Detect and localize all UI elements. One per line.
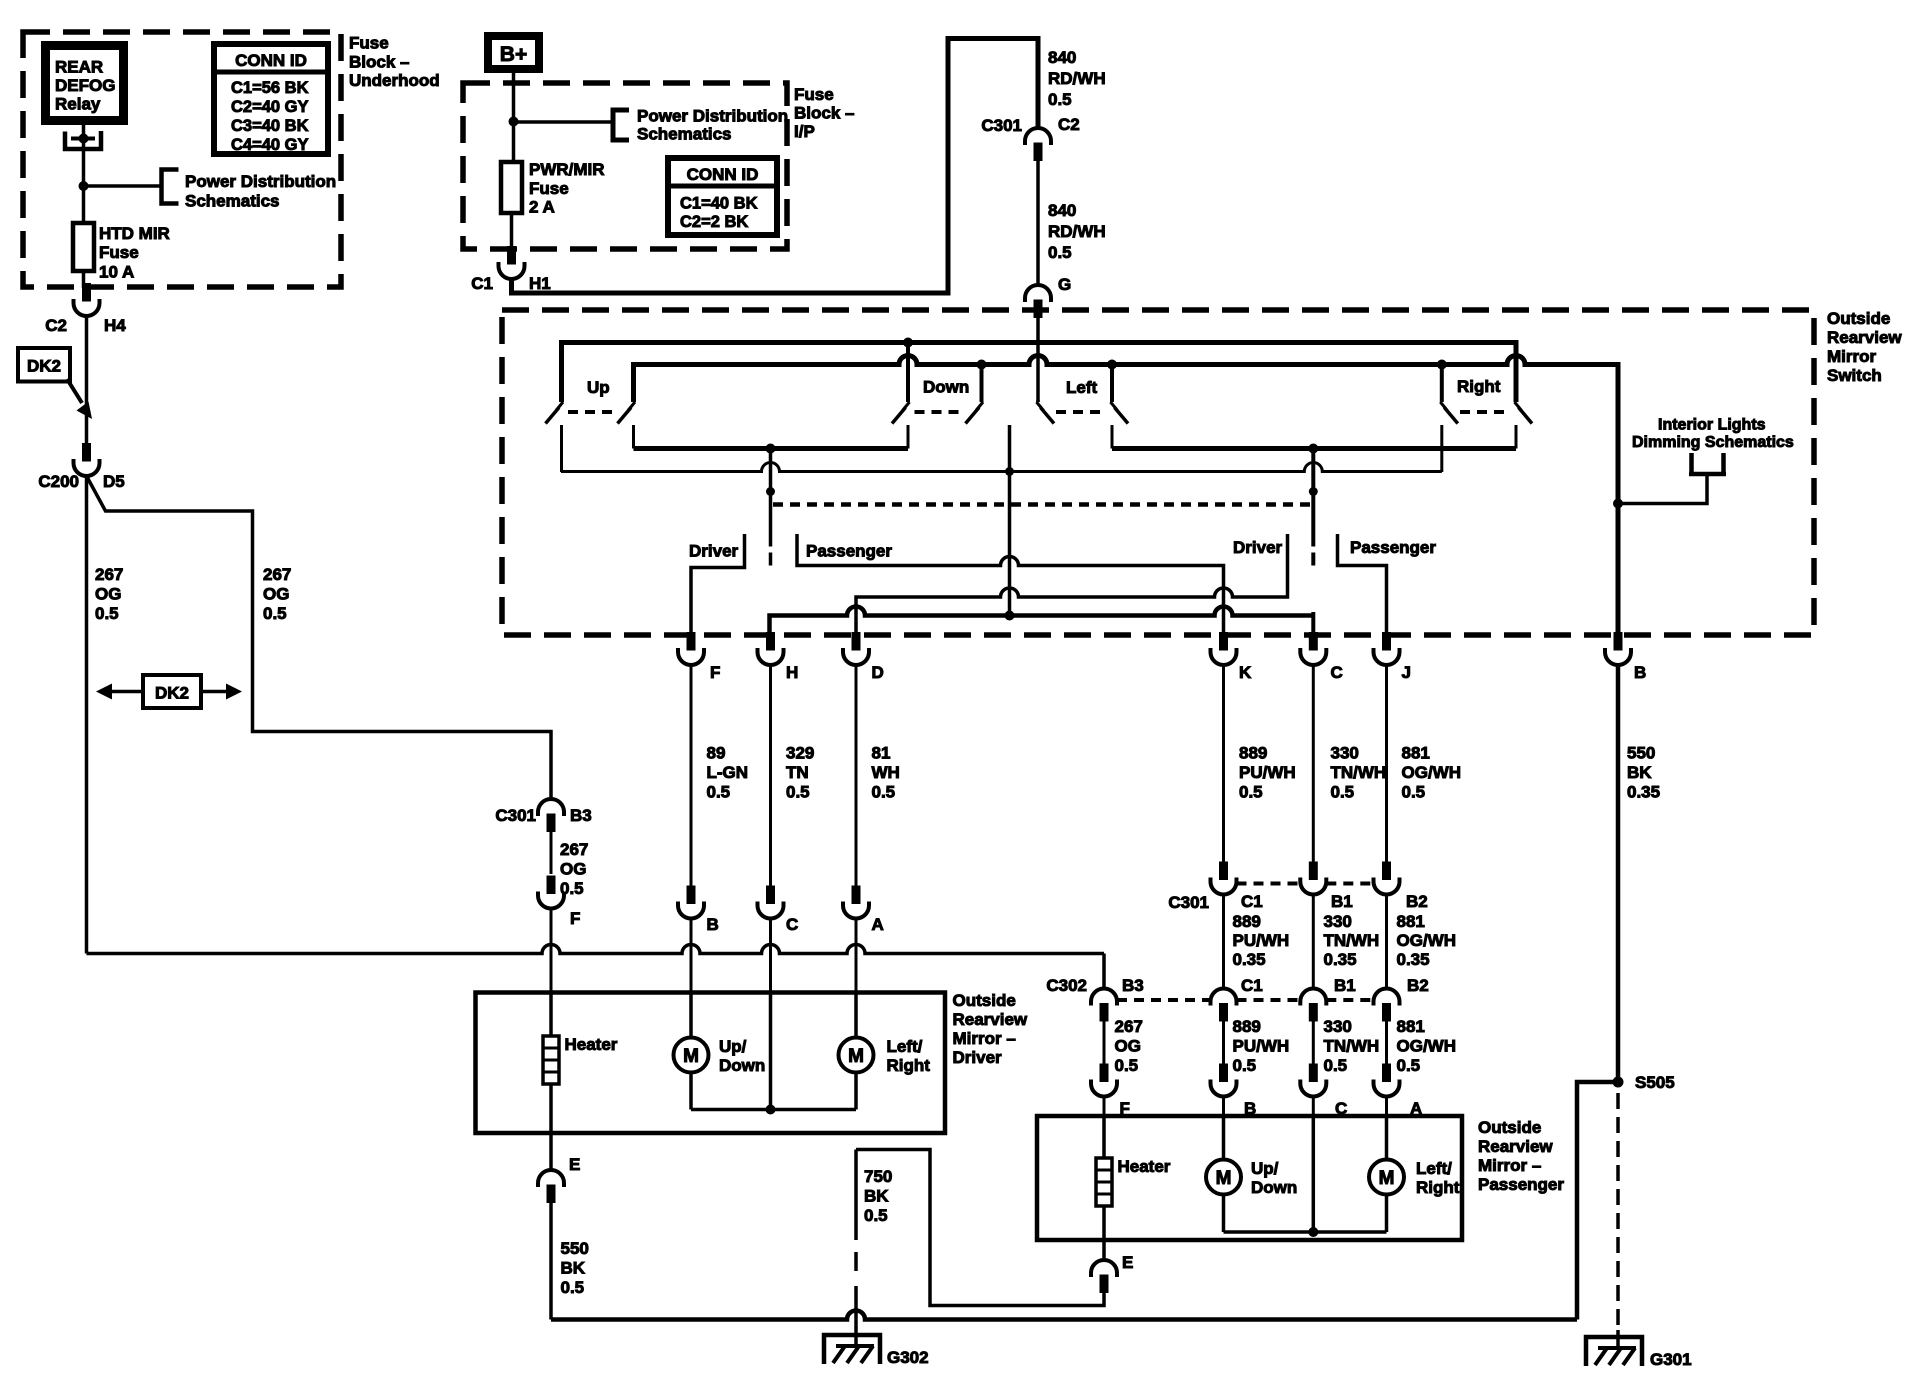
svg-text:Dimming Schematics: Dimming Schematics [1632,434,1794,451]
svg-text:Driver: Driver [1233,538,1283,557]
svg-text:G301: G301 [1650,1350,1692,1369]
switch SW4 Right gang dashes [1460,410,1508,414]
svg-text:0.5: 0.5 [1048,243,1072,262]
wire C inside box [1312,1116,1316,1232]
wire junction to fuse [82,186,86,223]
switch SW2 Down right pole [980,366,984,402]
wire heater down [1102,1206,1106,1260]
wire center (down/left common) [1008,425,1012,616]
svg-text:Rearview: Rearview [1478,1137,1553,1156]
wire heater down through box [549,1084,553,1170]
connector driver mirror pin B [687,886,695,904]
wire C301 B3 down [550,829,553,874]
relay connector bracket [65,131,101,149]
fuse F HTD MIR 10A [73,223,94,271]
conn id table I/P [668,158,777,235]
svg-text:0.5: 0.5 [786,783,810,802]
svg-text:E: E [1122,1253,1133,1272]
svg-text:Mirror –: Mirror – [1478,1156,1541,1175]
svg-text:0.5: 0.5 [1115,1056,1139,1075]
svg-text:0.5: 0.5 [561,1278,585,1297]
svg-text:OG: OG [95,585,121,604]
switch SW4 Right right pole [1514,344,1518,402]
svg-text:2 A: 2 A [529,198,555,217]
svg-text:WH: WH [872,763,900,782]
node C wire / dashed gang [1309,487,1318,496]
wire fuse to box edge [510,213,514,250]
svg-text:Up: Up [587,378,610,397]
svg-text:Heater: Heater [1118,1157,1171,1176]
connector C302 pin B3 [1091,989,1117,1006]
svg-text:550: 550 [1627,744,1655,763]
battery terminal B+ [488,36,539,69]
connector mirror switch pin D [852,633,860,651]
svg-text:550: 550 [561,1239,589,1258]
svg-text:C1=56 BK: C1=56 BK [231,79,309,97]
svg-text:0.5: 0.5 [1233,1056,1257,1075]
label Passenger (right platform, wire to J) [1338,534,1387,634]
svg-text:M: M [683,1046,699,1067]
motor M left/right passenger [1385,1116,1389,1160]
svg-text:BK: BK [864,1187,889,1206]
wire 750 BK dashes [854,1252,858,1271]
motor M up/down passenger [1222,1116,1226,1160]
node center wire / common line [1005,611,1015,621]
node H wire / dashed gang [766,487,775,496]
interior lights dimming callout [1613,499,1623,509]
connector mirror switch pin K [1220,633,1228,651]
connector C302 pin B1 [1300,989,1326,1006]
svg-text:Fuse: Fuse [99,243,139,262]
svg-text:C301: C301 [495,806,536,825]
svg-text:0.5: 0.5 [1402,783,1426,802]
switch SW2 Down gang dashes [915,410,964,414]
svg-text:K: K [1239,663,1252,682]
wire junction to fuse PWR/MIR [512,122,516,163]
wire dashed C302 connector body [1117,998,1211,1002]
svg-text:Up/: Up/ [719,1037,747,1056]
connector mirror switch pin J [1383,633,1391,651]
svg-text:Left/: Left/ [1416,1159,1452,1178]
fuse F PWR/MIR 2A [501,162,522,213]
svg-text:PWR/MIR: PWR/MIR [529,160,605,179]
svg-text:TN/WH: TN/WH [1331,763,1387,782]
node motor common [766,1105,776,1115]
svg-text:OG: OG [560,860,586,879]
wire to power distribution bracket I/P [514,120,612,124]
svg-text:C2: C2 [1058,115,1080,134]
relay K REAR DEFOG [46,46,124,121]
svg-text:Right: Right [1457,377,1501,396]
wire 750 BK solid part [854,1150,858,1241]
motor M left/right driver [854,993,858,1038]
svg-text:840: 840 [1048,201,1076,220]
svg-text:Fuse: Fuse [794,85,834,104]
svg-text:B2: B2 [1406,892,1428,911]
svg-text:Passenger: Passenger [1350,538,1436,557]
wire 267 OG horizontal run to passenger (hops F B C A) [87,945,1105,954]
svg-text:Outside: Outside [1478,1118,1541,1137]
wire D to driver conn A [855,665,858,889]
outside rearview mirror passenger box [1037,1116,1462,1240]
wire F inside box [1102,1116,1106,1158]
wire common line (H to C thick, hops at D and K) [770,607,1314,634]
connector mirror switch pin G [1025,285,1051,302]
fuse block underhood dashed box [23,32,341,287]
wire A into passenger mirror [1385,1097,1388,1117]
svg-text:89: 89 [707,744,726,763]
wire 840 RD/WH from C1 H1 to switch loop [512,39,1039,294]
svg-text:329: 329 [786,744,814,763]
svg-text:Driver: Driver [953,1048,1003,1067]
svg-text:L-GN: L-GN [707,763,749,782]
svg-text:C301: C301 [981,116,1022,135]
svg-text:E: E [569,1155,580,1174]
svg-text:G: G [1058,275,1071,294]
svg-text:F: F [570,909,580,928]
wire C301 B1 down [1312,895,1315,989]
svg-text:C200: C200 [38,472,79,491]
svg-text:881: 881 [1397,912,1425,931]
svg-text:BK: BK [1627,763,1652,782]
outside rearview mirror driver box [476,993,946,1134]
svg-text:Fuse: Fuse [349,34,389,53]
svg-text:Power Distribution: Power Distribution [185,172,336,191]
svg-text:C3=40 BK: C3=40 BK [231,117,309,135]
svg-text:Passenger: Passenger [1478,1175,1564,1194]
switch SW2 Down left pole [906,344,910,402]
svg-text:Relay: Relay [55,95,101,114]
svg-text:0.5: 0.5 [1324,1056,1348,1075]
connector driver mirror pin E [538,1170,564,1187]
wire C into driver mirror [769,919,772,993]
connector passenger mirror pin A [1383,1064,1391,1082]
switch SW3 Left left pole [1036,400,1040,402]
svg-text:BK: BK [561,1259,586,1278]
svg-text:S505: S505 [1635,1073,1675,1092]
wire dashed C301 connector body [1237,882,1301,886]
node rail B / left switch [1107,360,1117,370]
svg-text:0.5: 0.5 [1397,1056,1421,1075]
connector C301 pin B3 (driver heater feed) [538,799,564,816]
svg-text:CONN ID: CONN ID [235,51,307,70]
wire C302 pin down [1385,1019,1388,1068]
svg-text:C2: C2 [45,316,67,335]
connector C301 pin B1 [1309,862,1317,880]
svg-text:B1: B1 [1334,976,1356,995]
wire C resume to C connector [1311,612,1315,634]
svg-text:Outside: Outside [1827,309,1890,328]
connector driver mirror pin C [767,886,775,904]
wire motor common link [691,1108,856,1112]
svg-text:B1: B1 [1331,892,1353,911]
power distribution schematics bracket I/P [613,110,629,140]
wire F into passenger mirror [1103,1097,1106,1117]
svg-text:G302: G302 [887,1348,929,1367]
svg-text:0.5: 0.5 [1048,90,1072,109]
svg-text:I/P: I/P [794,122,815,141]
DK2 box with double arrow [106,690,232,694]
fuse block I/P dashed box [463,83,787,249]
wire C2 to C200 [85,316,89,447]
svg-text:B2: B2 [1407,976,1429,995]
svg-text:J: J [1402,663,1411,682]
wire motor common link passenger [1224,1230,1387,1234]
svg-text:Mirror –: Mirror – [953,1029,1016,1048]
svg-text:B: B [707,915,719,934]
svg-text:Block –: Block – [349,53,409,72]
connector mirror switch pin F [687,633,695,651]
svg-text:881: 881 [1397,1017,1425,1036]
label Driver (right platform, wire to D) [856,534,1288,634]
svg-text:OG: OG [263,585,289,604]
wire B into passenger mirror [1222,1097,1225,1117]
switch SW3 Left right pole [1110,366,1114,402]
svg-text:Down: Down [923,378,969,397]
wire B to S505 [1616,665,1621,1082]
svg-text:TN: TN [786,763,809,782]
svg-text:OG: OG [1115,1037,1141,1056]
wire to power distribution bracket [84,184,161,188]
svg-text:Down: Down [1251,1178,1297,1197]
switch SW1 Up right pole [632,367,636,402]
svg-text:889: 889 [1233,1017,1261,1036]
svg-text:0.5: 0.5 [864,1206,888,1225]
svg-text:267: 267 [95,565,123,584]
wire C hidden dash [1311,553,1315,566]
ground G301 [1586,1337,1642,1366]
connector C302 pin B2 [1374,989,1400,1006]
svg-text:H4: H4 [104,316,126,335]
wire C302 pin down [1103,1019,1106,1068]
label Driver (left platform) [691,534,745,634]
svg-text:C: C [1331,663,1343,682]
svg-text:Left: Left [1066,378,1098,397]
connector C1 pin H1 [508,247,516,265]
wire G into switch [1036,315,1040,402]
svg-text:81: 81 [872,744,891,763]
power distribution schematics bracket [162,170,179,204]
svg-text:C2=40 GY: C2=40 GY [231,98,309,116]
connector driver mirror pin F [547,876,555,894]
heater R driver [543,1036,559,1084]
wire 750 BK through hop to ground [854,1310,858,1347]
node B+ junction [509,117,519,127]
svg-text:Right: Right [1416,1178,1460,1197]
svg-text:881: 881 [1402,744,1430,763]
connector C200 pin D5 [83,444,91,462]
svg-text:C1: C1 [1241,892,1263,911]
svg-text:F: F [710,663,720,682]
wire rail B (second rail, hops at 908/1038/1516) [634,356,1619,635]
svg-text:C301: C301 [1168,893,1209,912]
svg-text:Underhood: Underhood [349,71,440,90]
switch SW3 Left gang dashes [1056,410,1104,414]
svg-text:PU/WH: PU/WH [1233,931,1290,950]
wire C200 straight down [85,476,89,954]
wire E to 750 BK ground branch [856,1150,1104,1306]
svg-text:Power Distribution: Power Distribution [637,107,788,126]
svg-text:H1: H1 [529,274,551,293]
svg-text:267: 267 [560,840,588,859]
wire C2 to G [1036,158,1040,285]
conn id table underhood [214,44,328,154]
svg-text:C1: C1 [1241,976,1263,995]
wire F inside box [549,993,553,1037]
svg-text:Interior Lights: Interior Lights [1658,417,1766,434]
svg-text:Mirror: Mirror [1827,347,1877,366]
svg-text:0.35: 0.35 [1324,950,1357,969]
connector C301 pin C1 [1220,862,1228,880]
connector C301 pin B2 [1383,862,1391,880]
svg-text:0.5: 0.5 [1331,783,1355,802]
wire rail C2 (left-right to right-right) [1112,446,1516,451]
node splice S505 [1613,1077,1624,1088]
svg-text:0.5: 0.5 [1239,783,1263,802]
svg-text:A: A [872,915,884,934]
svg-text:0.35: 0.35 [1397,950,1430,969]
node rail B / down switch [977,360,987,370]
svg-text:D: D [872,663,884,682]
svg-text:Passenger: Passenger [806,542,892,561]
svg-text:267: 267 [263,565,291,584]
wire rail A (top power rail) [562,343,1517,403]
svg-text:Rearview: Rearview [953,1010,1028,1029]
svg-text:330: 330 [1324,1017,1352,1036]
wire H to driver conn C [769,665,772,889]
wire corner down to C302 B3 [1102,954,1106,989]
svg-text:OG/WH: OG/WH [1402,763,1462,782]
connector mirror switch pin B [1614,633,1622,651]
connector C301 pin C2 [1025,128,1051,145]
svg-text:330: 330 [1331,744,1359,763]
connector passenger mirror pin C [1309,1064,1317,1082]
ground G302 [824,1335,880,1364]
svg-text:0.5: 0.5 [95,604,119,623]
svg-text:M: M [1379,1168,1395,1189]
svg-text:C2=2 BK: C2=2 BK [680,213,748,231]
svg-text:B3: B3 [1122,976,1144,995]
wire rail D (thin, hops at 770/1313) [561,463,1442,472]
svg-text:RD/WH: RD/WH [1048,69,1106,88]
svg-text:OG/WH: OG/WH [1397,1037,1457,1056]
svg-text:750: 750 [864,1167,892,1186]
node rail A / down switch [903,338,913,348]
svg-text:PU/WH: PU/WH [1233,1037,1290,1056]
wire K to C301 C1 [1222,665,1225,865]
outside rearview mirror switch dashed box [502,310,1814,635]
svg-text:Schematics: Schematics [185,192,280,211]
svg-text:C: C [786,915,798,934]
svg-text:C1=40 BK: C1=40 BK [680,195,758,213]
wire C302 pin down [1222,1019,1225,1068]
connector mirror switch pin C [1309,633,1317,651]
svg-text:PU/WH: PU/WH [1239,763,1296,782]
svg-text:C1: C1 [471,274,493,293]
node motor common passenger [1308,1227,1318,1237]
wire B+ down [512,69,516,121]
motor M up/down driver [689,993,693,1038]
svg-text:0.35: 0.35 [1233,950,1266,969]
switch SW1 Up gang dashes [568,410,616,414]
wire dashed selector gang (H to C) [773,502,1311,507]
wire A into driver mirror [855,919,858,993]
wire H hidden dash [769,553,773,566]
svg-text:Down: Down [719,1056,765,1075]
svg-text:Block –: Block – [794,104,854,123]
svg-text:Schematics: Schematics [637,125,732,144]
svg-text:Fuse: Fuse [529,179,569,198]
svg-text:889: 889 [1233,912,1261,931]
svg-text:889: 889 [1239,744,1267,763]
switch SW1 Up left pole [560,345,564,402]
svg-text:M: M [848,1046,864,1067]
wire dashed S505 to G301 [1616,1093,1620,1332]
svg-text:267: 267 [1115,1017,1143,1036]
svg-text:Heater: Heater [565,1035,618,1054]
svg-text:Outside: Outside [953,991,1016,1010]
svg-text:H: H [786,663,798,682]
wire C inside box [769,993,773,1110]
node rail D / center wire [1005,467,1014,476]
svg-text:TN/WH: TN/WH [1324,931,1380,950]
wire up to S505 [1577,1082,1613,1320]
wire relay to junction [82,125,86,183]
wire F to driver conn B [690,665,693,889]
wire C301 B2 down [1385,895,1388,989]
svg-text:Switch: Switch [1827,366,1882,385]
svg-text:10 A: 10 A [99,263,134,282]
wire C to C301 B1 [1312,665,1315,865]
svg-text:Left/: Left/ [887,1037,923,1056]
svg-text:C302: C302 [1046,976,1087,995]
wire C into passenger mirror [1312,1097,1315,1117]
wire C301 C1 down [1222,895,1225,989]
node junction to power distribution [79,181,89,191]
heater R passenger [1096,1158,1112,1206]
svg-text:HTD MIR: HTD MIR [99,224,170,243]
svg-text:0.5: 0.5 [872,783,896,802]
DK2 box with arrow [18,348,70,382]
svg-text:840: 840 [1048,48,1076,67]
svg-text:Up/: Up/ [1251,1159,1279,1178]
wire 550 BK ground run (hop at G302 wire) [551,1311,1577,1320]
connector passenger mirror pin F [1100,1064,1108,1082]
label Passenger (left platform, wire to K) [797,534,1224,634]
wire fuse to box edge [82,271,86,288]
node rail C2 / C wire tap [1308,444,1318,454]
wire B into driver mirror [690,919,693,993]
wire J to C301 B2 [1385,665,1388,865]
wire rail C (up-right to down-left) [634,446,909,451]
wire C200 branch diagonal to DK2 branch [87,476,552,799]
svg-text:330: 330 [1324,912,1352,931]
svg-text:B+: B+ [500,43,527,66]
connector driver mirror pin A [852,886,860,904]
svg-text:Rearview: Rearview [1827,328,1902,347]
svg-text:CONN ID: CONN ID [687,165,759,184]
connector C302 pin C1 [1211,989,1237,1006]
svg-text:M: M [1216,1168,1232,1189]
svg-text:OG/WH: OG/WH [1397,931,1457,950]
svg-text:REAR: REAR [55,58,103,77]
svg-text:0.35: 0.35 [1627,783,1660,802]
svg-text:RD/WH: RD/WH [1048,222,1106,241]
svg-text:0.5: 0.5 [263,604,287,623]
svg-text:DK2: DK2 [155,684,189,703]
wire C from rail C2 tap [1311,449,1315,547]
wire E down to ground run [549,1200,553,1320]
